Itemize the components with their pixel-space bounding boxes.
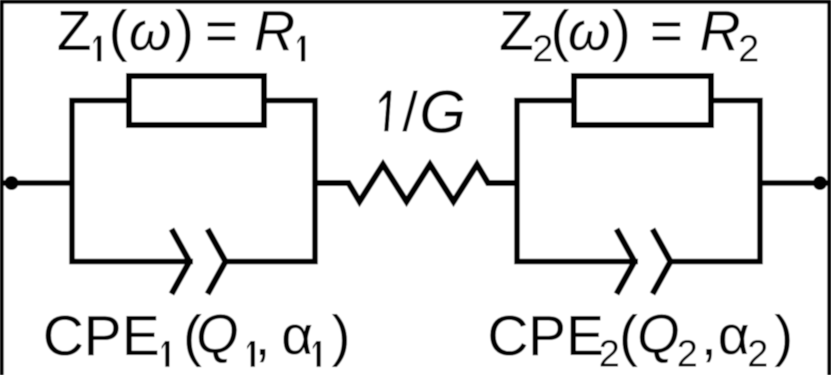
svg-text:Z: Z — [499, 0, 534, 63]
capacitor CPE2 chevron 1 — [617, 229, 635, 294]
svg-text:E: E — [122, 304, 160, 368]
svg-text:): ) — [332, 304, 351, 368]
svg-text:(: ( — [619, 304, 638, 368]
wire block1 left branch — [72, 101, 193, 262]
label 1/G : custom italic 1 — [379, 91, 391, 132]
resistor R2 box — [574, 76, 711, 125]
wire block2 right branch — [672, 101, 760, 262]
wire block1 right branch — [227, 101, 315, 262]
svg-text:C: C — [487, 304, 528, 368]
svg-text:2: 2 — [677, 334, 698, 375]
resistor R1 box — [129, 76, 264, 125]
border frame left — [0, 0, 4, 375]
svg-text:R: R — [254, 0, 295, 63]
capacitor CPE2 chevron 2 — [653, 229, 671, 294]
svg-text:): ) — [774, 304, 793, 368]
svg-text:Q: Q — [196, 304, 238, 365]
wire right lead — [760, 180, 828, 186]
border frame right — [827, 0, 831, 375]
svg-text:): ) — [175, 0, 194, 63]
capacitor CPE1 chevron 1 — [172, 229, 190, 294]
svg-text:,: , — [255, 304, 271, 368]
svg-text:,: , — [701, 304, 717, 368]
svg-text:Z: Z — [57, 0, 92, 63]
label 1/G : slash — [402, 91, 418, 132]
wire block2 left branch — [517, 101, 638, 262]
svg-text:=: = — [205, 0, 238, 63]
resistor 1/G zigzag — [315, 165, 517, 202]
svg-text:α: α — [281, 304, 313, 366]
wire left lead — [3, 180, 74, 186]
svg-text:R: R — [700, 0, 741, 63]
svg-text:G: G — [419, 78, 466, 145]
svg-text:2: 2 — [599, 334, 620, 375]
svg-text:ω: ω — [129, 0, 172, 62]
svg-text:ω: ω — [568, 0, 611, 62]
svg-text:): ) — [612, 0, 631, 63]
node left terminal dot — [5, 176, 19, 190]
svg-text:α: α — [718, 304, 750, 366]
svg-text:2: 2 — [738, 29, 759, 71]
svg-text:(: ( — [551, 0, 570, 63]
capacitor CPE1 chevron 2 — [208, 229, 226, 294]
svg-text:(: ( — [109, 0, 128, 63]
svg-text:Q: Q — [637, 304, 679, 365]
svg-text:C: C — [43, 304, 84, 368]
svg-text:P: P — [528, 304, 566, 368]
svg-text:2: 2 — [747, 334, 768, 375]
border frame top — [0, 0, 831, 4]
node right terminal dot — [813, 176, 827, 190]
svg-text:=: = — [650, 0, 683, 63]
svg-text:P: P — [84, 304, 122, 368]
